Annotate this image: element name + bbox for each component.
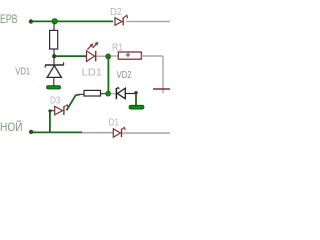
svg-text:VD2: VD2: [117, 70, 132, 81]
svg-text:НОЙ: НОЙ: [0, 119, 23, 134]
svg-text:ЕРВ: ЕРВ: [0, 12, 18, 26]
svg-text:D2: D2: [110, 6, 122, 18]
svg-text:D3: D3: [50, 94, 61, 106]
svg-text:D1: D1: [109, 116, 120, 128]
svg-text:R1: R1: [112, 42, 123, 54]
svg-text:LD1: LD1: [82, 66, 103, 78]
svg-text:VD1: VD1: [15, 67, 30, 78]
